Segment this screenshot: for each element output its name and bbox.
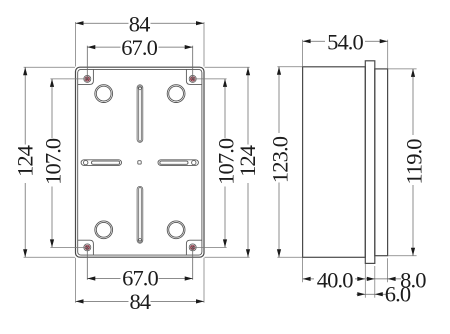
hole bottom-left (95, 221, 113, 239)
hole top-left (95, 85, 113, 103)
svg-text:124: 124 (235, 145, 260, 177)
dim 67.0 top arrows (87, 45, 192, 49)
dim 6.0 arrows (357, 292, 383, 296)
vertical slot lower (137, 186, 143, 243)
dim 119.0 right: extension lines (388, 69, 417, 256)
vertical slot upper (137, 85, 143, 143)
dim 107.0 right: dimension line (224, 79, 226, 248)
dim 84 top: extension lines (76, 22, 205, 67)
svg-text:107.0: 107.0 (40, 138, 65, 185)
front view inner body line (78, 69, 202, 255)
dim 123.0 left: extension lines (277, 67, 302, 257)
screw top-left (84, 75, 91, 82)
dim 67.0 top: dimension line (87, 46, 192, 48)
side view cover panel (375, 69, 388, 256)
dim 124 left: dimension line (24, 67, 26, 257)
dim 124 right arrows (246, 67, 250, 257)
corner boss top-right (186, 69, 202, 84)
side view flange (365, 61, 375, 264)
dim 84 bottom arrows (76, 299, 205, 303)
side view back box (303, 67, 366, 257)
dim 124 left: extension lines (24, 67, 75, 257)
dim 124 right: extension lines (205, 67, 250, 257)
svg-text:119.0: 119.0 (401, 139, 426, 185)
svg-text:84: 84 (129, 12, 150, 37)
corner boss top-left (78, 69, 94, 84)
horizontal slot right (158, 160, 198, 166)
dim 84 bottom: dimension line (76, 300, 205, 302)
svg-text:67.0: 67.0 (121, 35, 157, 60)
dim 107.0 right arrows (223, 79, 227, 248)
dim 84 top arrows (76, 21, 205, 25)
svg-text:67.0: 67.0 (122, 266, 158, 291)
dim 124 right: dimension line (247, 67, 249, 257)
screw bottom-left (84, 244, 91, 251)
dim 67.0 bottom arrows (87, 276, 192, 280)
svg-text:6.0: 6.0 (385, 282, 411, 307)
screw bottom-right (189, 244, 196, 251)
horizontal slot left (81, 160, 121, 166)
dim 84 top: dimension line (76, 22, 205, 24)
svg-text:84: 84 (129, 289, 150, 314)
dim 6.0: dimension line and leaders (357, 293, 387, 295)
screw top-right (189, 75, 196, 82)
dim 67.0 bottom: dimension line (87, 278, 192, 280)
dim 107.0 left arrows (50, 79, 54, 248)
dim 8.0 arrows (367, 277, 396, 281)
svg-text:124: 124 (12, 145, 37, 177)
front view outer body (76, 67, 205, 257)
dim 123.0: dimension line (278, 67, 280, 257)
svg-text:123.0: 123.0 (267, 136, 292, 183)
dim 119.0: dimension line (412, 69, 414, 256)
dim 67.0 bottom: extension lines (87, 247, 192, 279)
svg-text:40.0: 40.0 (317, 267, 353, 292)
dim 84 bottom: extension lines (76, 258, 205, 303)
corner boss bottom-left (78, 240, 94, 255)
dim 54.0 top: extension lines (303, 40, 388, 69)
dim 8.0: dimension line and leaders (366, 278, 401, 280)
dim 107.0 left: dimension line (51, 79, 53, 248)
hole bottom-right (167, 221, 185, 239)
dim 107.0 left: extension lines (50, 79, 87, 248)
corner boss bottom-right (186, 240, 202, 255)
dim 40.0 arrows (303, 277, 366, 281)
hole top-right (167, 85, 185, 103)
dim 67.0 top: extension lines (87, 46, 192, 79)
dim 119.0 arrows (411, 69, 415, 256)
dim 54.0 arrows (303, 39, 388, 43)
dim 107.0 right: extension lines (193, 79, 227, 248)
dim 40.0 bottom: extension lines (303, 258, 366, 298)
dim 54.0: dimension line (303, 40, 388, 42)
dim 123.0 arrows (277, 67, 281, 257)
dim 40.0: dimension line (303, 278, 366, 280)
center square (138, 161, 141, 164)
svg-text:54.0: 54.0 (327, 30, 363, 55)
dim 8.0: extension lines (375, 258, 388, 298)
dim 124 left arrows (23, 67, 27, 257)
